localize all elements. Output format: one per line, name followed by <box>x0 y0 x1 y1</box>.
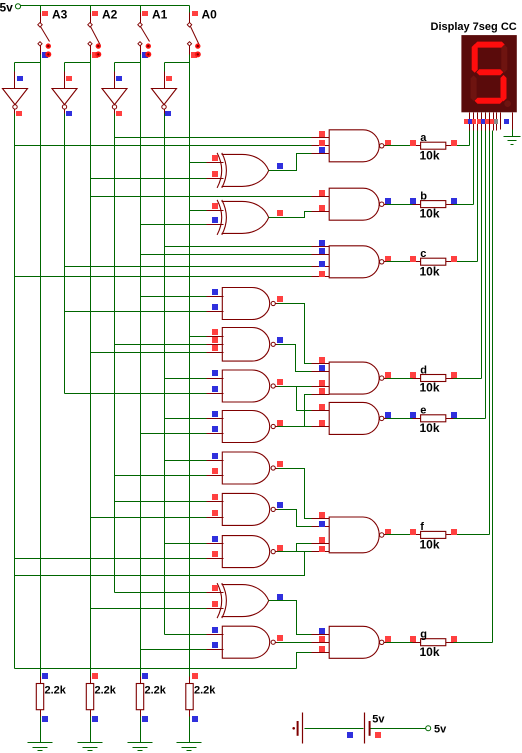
svg-text:10k: 10k <box>420 538 440 552</box>
svg-text:Display 7seg CC: Display 7seg CC <box>431 21 517 33</box>
svg-text:2.2k: 2.2k <box>95 685 117 697</box>
svg-text:d: d <box>420 364 427 376</box>
svg-text:10k: 10k <box>420 381 440 395</box>
svg-text:e: e <box>420 405 426 417</box>
svg-text:10k: 10k <box>420 207 440 221</box>
svg-text:g: g <box>420 629 427 641</box>
svg-text:2.2k: 2.2k <box>194 685 216 697</box>
svg-text:b: b <box>420 190 427 202</box>
svg-text:5v: 5v <box>372 713 385 725</box>
svg-text:10k: 10k <box>420 421 440 435</box>
svg-text:10k: 10k <box>420 645 440 659</box>
svg-text:2.2k: 2.2k <box>45 685 67 697</box>
svg-text:5v: 5v <box>434 724 447 736</box>
svg-text:f: f <box>420 521 424 533</box>
svg-text:A1: A1 <box>152 8 168 22</box>
svg-text:10k: 10k <box>420 148 440 162</box>
svg-text:5v: 5v <box>0 0 13 14</box>
svg-text:A0: A0 <box>202 8 218 22</box>
svg-text:A3: A3 <box>52 8 68 22</box>
svg-text:A2: A2 <box>102 8 118 22</box>
svg-text:c: c <box>420 248 426 260</box>
svg-text:2.2k: 2.2k <box>145 685 167 697</box>
svg-text:a: a <box>420 132 427 144</box>
svg-text:10k: 10k <box>420 264 440 278</box>
